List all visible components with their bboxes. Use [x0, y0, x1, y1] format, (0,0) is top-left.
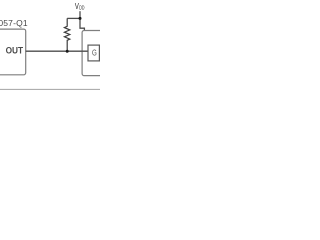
wire: horizontal from resistor top to VDD junction — [67, 17, 80, 19]
wire: VDD junction down, right, down into MCU box top — [80, 18, 84, 30]
wire: VDD stub down to junction — [79, 11, 81, 18]
supervisor U1 device box (left, cut off at left edge) — [0, 29, 26, 75]
svg-text:DD: DD — [79, 6, 84, 12]
wire: OUT net from device to MCU pin — [26, 50, 89, 52]
junction dot at resistor/OUT net — [66, 50, 69, 53]
svg-text:OUT: OUT — [6, 46, 24, 56]
separator rule at bottom — [0, 88, 100, 90]
junction dot at VDD — [79, 17, 82, 20]
resistor R1 (pull-up) — [64, 18, 69, 51]
svg-text:057-Q1: 057-Q1 — [0, 18, 28, 28]
background — [0, 0, 100, 100]
GPIO pin box inside MCU — [88, 45, 99, 61]
svg-text:G: G — [92, 47, 97, 57]
MCU outer box (right, cut off at right edge) — [82, 31, 112, 76]
